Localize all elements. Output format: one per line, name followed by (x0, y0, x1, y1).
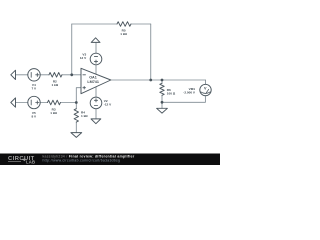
ground under R6 (157, 108, 168, 113)
resistor R2 (49, 73, 62, 78)
wire voltmeter top stub (205, 80, 207, 84)
wire V2 to ground (95, 109, 97, 119)
node junction feedback-output (149, 79, 152, 82)
svg-text:LAB: LAB (26, 159, 35, 164)
node junction R6 bottom (161, 101, 164, 104)
wire feedback left vertical (71, 24, 73, 75)
op-amp OA1 (81, 68, 111, 93)
wire R3 to node (61, 102, 77, 104)
wire power arrow to V3 (95, 42, 97, 53)
node flag IN2 (11, 98, 16, 107)
svg-text:-2.000 V: -2.000 V (183, 90, 196, 94)
node junction noninverting input (75, 101, 78, 104)
svg-text:1 kΩ: 1 kΩ (81, 114, 88, 118)
voltage source V5 (28, 96, 40, 108)
wire R6 top stub (161, 80, 163, 83)
svg-text:100 Ω: 100 Ω (167, 92, 176, 96)
svg-text:12 V: 12 V (80, 56, 87, 60)
wire R6 bottom to ground (161, 95, 163, 108)
ground under R4 (71, 133, 82, 138)
svg-text:1 kΩ: 1 kΩ (120, 32, 127, 36)
voltage source V4 (28, 69, 40, 81)
resistor R3 (48, 100, 61, 105)
wire feedback top right segment (131, 23, 151, 25)
wire feedback top left segment (72, 23, 117, 25)
wire R4 bottom to ground (75, 122, 77, 133)
svg-text:-12 V: -12 V (104, 103, 112, 107)
node flag IN1 (11, 70, 16, 79)
junction node dots (70, 73, 163, 104)
voltmeter VM1 (200, 84, 211, 95)
footer bar (0, 154, 220, 166)
wire V4 to R2 (40, 74, 49, 76)
resistor R5 (117, 22, 131, 27)
voltage source V2 (90, 97, 102, 109)
svg-text:1 kΩ: 1 kΩ (50, 111, 57, 115)
wire flag IN1 to V4 (16, 74, 28, 76)
wire V3 to op-amp top (95, 65, 97, 75)
svg-text:LM741: LM741 (87, 80, 98, 84)
node junction inverting input (70, 73, 73, 76)
svg-text:1 kΩ: 1 kΩ (51, 83, 58, 87)
wire voltmeter bottom run (162, 96, 205, 103)
wire feedback right vertical (150, 24, 152, 80)
wire op-amp output (111, 79, 206, 81)
wire R2 to op-amp inverting input (62, 74, 81, 76)
node junction R6 top (161, 79, 164, 82)
power arrow above V3 (91, 38, 100, 43)
wire node to R4 top (75, 103, 77, 109)
wire flag IN2 to V5 (16, 102, 28, 104)
wire op-amp bottom to V2 (95, 87, 97, 97)
ground under V2 (91, 119, 101, 124)
wire V5 to R3 (40, 102, 47, 104)
wire noninverting jog up (76, 88, 81, 103)
voltage source V3 (90, 53, 102, 65)
svg-text:http://www.circuitlab.com/circ: http://www.circuitlab.com/circuit/ba3a3d… (43, 158, 121, 162)
resistor R4 (74, 109, 78, 122)
resistor R6 (160, 83, 164, 95)
